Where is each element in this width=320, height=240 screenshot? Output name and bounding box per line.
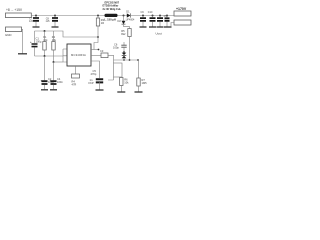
capacitor C3 timing box xyxy=(100,49,104,53)
junction dot xyxy=(53,61,55,63)
svg-text:47R: 47R xyxy=(72,82,77,86)
capacitor C1 xyxy=(30,37,42,45)
svg-text:C10: C10 xyxy=(148,11,153,14)
svg-text:UF4004: UF4004 xyxy=(126,18,135,21)
wire output GND to ground xyxy=(171,23,174,27)
inductor L1 xyxy=(104,18,116,22)
junction dot xyxy=(44,55,46,57)
svg-text:D2: D2 xyxy=(118,19,122,23)
wire R2 bottom to IC pin4 xyxy=(54,61,64,63)
node GND label xyxy=(5,33,11,37)
op-amp U1 MC34063 xyxy=(67,44,91,66)
connector K2 output + terminal xyxy=(174,11,191,16)
svg-text:10k: 10k xyxy=(124,81,129,85)
resistor Rsc xyxy=(97,15,99,17)
svg-text:1n5: 1n5 xyxy=(29,20,34,23)
svg-text:MC34063A: MC34063A xyxy=(71,53,86,57)
svg-text:2x 30 Wdg CuL: 2x 30 Wdg CuL xyxy=(103,7,122,11)
connector K2 output GND terminal xyxy=(174,20,191,25)
resistor R1 xyxy=(43,35,48,42)
capacitor C9 xyxy=(141,11,145,14)
svg-text:1n5: 1n5 xyxy=(46,20,51,23)
node +170V label xyxy=(176,7,187,11)
junction dot switch node xyxy=(123,15,125,17)
svg-text:100n: 100n xyxy=(57,80,63,84)
wire vcc bus xyxy=(35,31,99,37)
svg-text:470p: 470p xyxy=(91,72,97,76)
svg-text:100p: 100p xyxy=(113,46,119,50)
node output note xyxy=(156,31,163,35)
wire feedback line xyxy=(114,59,139,61)
wire IC pin3 to C5 xyxy=(91,61,100,78)
capacitor C7 xyxy=(29,17,34,23)
wire IC left pin tie xyxy=(62,49,64,62)
ground xyxy=(18,53,27,55)
capacitor C5 xyxy=(89,69,97,85)
svg-text:+170V: +170V xyxy=(176,7,187,11)
capacitor C12 xyxy=(164,15,169,18)
wire input rail xyxy=(31,15,174,17)
wire node A to IC pin5 xyxy=(35,55,64,57)
svg-text:GND: GND xyxy=(5,33,11,37)
svg-text:+8 ... +15V: +8 ... +15V xyxy=(6,8,23,12)
node +8..15V input label xyxy=(6,8,23,12)
diode D2 zener xyxy=(118,19,122,23)
wire GND terminal to ground xyxy=(22,29,23,53)
svg-text:FKP: FKP xyxy=(89,81,94,85)
potentiometer P1 xyxy=(108,60,114,80)
pin stubs left xyxy=(63,49,67,62)
junction dot xyxy=(44,30,46,32)
capacitor C2 xyxy=(44,56,46,80)
svg-text:Uout: Uout xyxy=(156,31,163,35)
transformer note text xyxy=(103,0,122,10)
capacitor C10 xyxy=(148,11,153,14)
svg-text:100µ: 100µ xyxy=(36,40,42,44)
resistor R4 xyxy=(72,74,80,78)
svg-text:C9: C9 xyxy=(141,11,145,14)
svg-text:C3: C3 xyxy=(100,49,104,53)
resistor R2 xyxy=(52,35,57,42)
wire IC bottom pin xyxy=(75,66,77,74)
resistor R7 xyxy=(138,60,140,78)
svg-text:8k2: 8k2 xyxy=(121,32,126,36)
resistor R6 xyxy=(120,78,123,86)
capacitor C4 xyxy=(53,62,55,80)
svg-text:1M5: 1M5 xyxy=(142,81,148,85)
connector K1 input + terminal xyxy=(6,13,32,18)
capacitor C11 xyxy=(159,15,161,17)
pin stubs right top xyxy=(91,49,99,51)
diode D3 D4 pair xyxy=(123,51,125,53)
capacitor C8 xyxy=(46,17,51,23)
svg-text:1R: 1R xyxy=(101,21,104,25)
svg-text:L, 150 µH: L, 150 µH xyxy=(104,18,116,22)
diode D1 xyxy=(126,9,135,21)
capacitor C6 xyxy=(113,43,119,50)
svg-text:D1: D1 xyxy=(126,9,130,13)
wire C1 drop xyxy=(34,31,36,43)
resistor R5 xyxy=(121,29,126,36)
connector K1 input GND terminal xyxy=(6,27,22,32)
